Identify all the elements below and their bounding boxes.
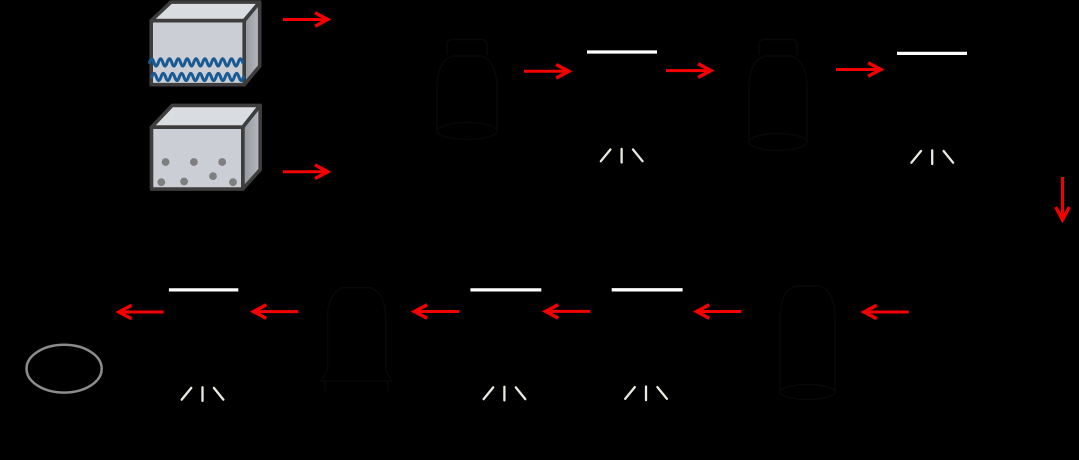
press 1 legs	[601, 149, 643, 163]
spring zigzag row 1	[150, 59, 243, 66]
press 1 white platen line	[587, 50, 657, 53]
arrow B2 (leftwards)	[254, 305, 299, 319]
faint vessel V1 (mixing jar, top centre-left)	[437, 40, 497, 140]
arrow A3 (into press 1)	[524, 65, 569, 79]
table 3 legs	[625, 387, 667, 401]
faint vessel V4 (bottom, right of centre)	[780, 286, 835, 400]
foam pores	[157, 158, 237, 186]
table 2 legs	[484, 387, 526, 401]
box 1 (spring core block)	[151, 2, 260, 85]
table 1 white line	[169, 288, 238, 291]
end ellipse	[27, 345, 102, 393]
press 2 white platen line	[897, 52, 967, 55]
spring zigzag row 2	[152, 73, 244, 80]
table 2 white line	[470, 288, 541, 291]
arrow B5 (leftwards)	[697, 305, 742, 319]
faint vessel V2 (top right)	[749, 40, 807, 151]
arrow B1 (leftwards, into end ellipse)	[119, 305, 164, 319]
arrow A1 (box1 to right)	[283, 13, 328, 27]
arrow A6 (down, right edge)	[1056, 177, 1070, 220]
arrow B3 (leftwards)	[414, 305, 459, 319]
press 2 legs	[911, 150, 953, 164]
arrow A5 (into press 2)	[836, 63, 881, 77]
arrow A2 (box2 to right)	[283, 165, 328, 179]
arrow B6 (leftwards, far right)	[864, 305, 909, 319]
arrow A4 (press 1 to vessel 2)	[666, 64, 711, 78]
table 3 white line	[612, 288, 683, 291]
table 1 legs	[182, 387, 224, 401]
arrow B4 (leftwards)	[546, 305, 591, 319]
box 2 (foam block with pores)	[152, 105, 261, 189]
faint vessel V3 (bottom, left of centre)	[321, 288, 392, 391]
